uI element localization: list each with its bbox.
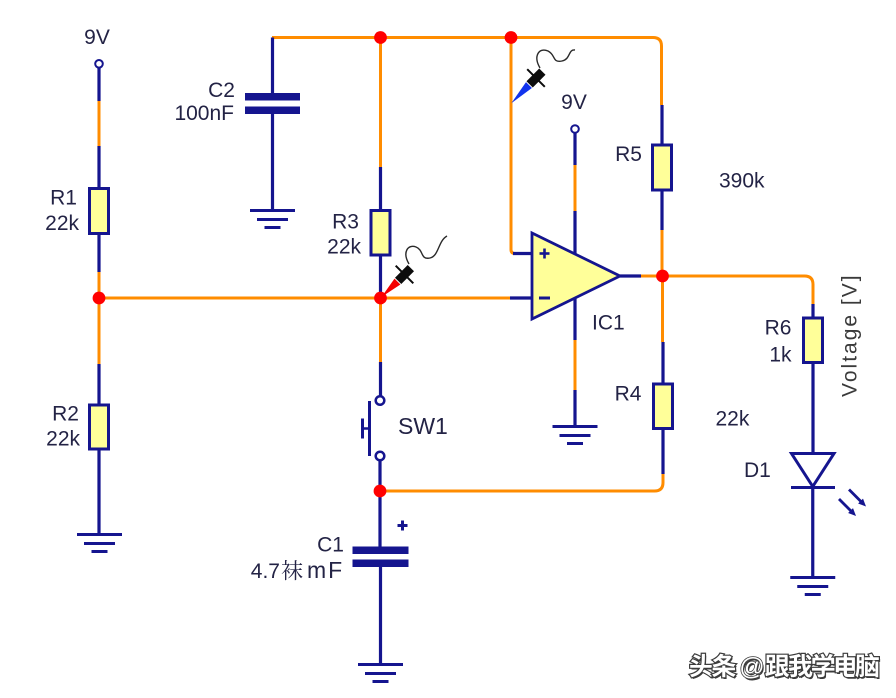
wire lead C2 bottom to ground <box>271 114 274 211</box>
resistor R1 body <box>90 189 109 234</box>
wire lead SW1 bottom to node <box>378 461 381 488</box>
wire lead R4 bottom <box>661 429 664 475</box>
svg-text:390k: 390k <box>719 170 765 193</box>
op-amp plus input symbol <box>540 249 550 259</box>
svg-text:@: @ <box>739 653 764 681</box>
svg-text:C2: C2 <box>208 79 235 102</box>
wire lead R1 bottom <box>97 233 100 272</box>
op-amp minus input symbol <box>539 297 550 300</box>
wire lead R3 top <box>379 167 382 211</box>
svg-text:R4: R4 <box>615 383 642 406</box>
svg-text:9V: 9V <box>84 26 110 49</box>
resistor R4 body <box>654 384 673 429</box>
svg-text:4.7: 4.7 <box>251 560 280 583</box>
wire output bus to R6 <box>640 276 813 304</box>
resistor R3 body <box>371 211 390 256</box>
wire lead R5 bottom <box>660 190 663 230</box>
capacitor C1 plates <box>353 547 409 555</box>
watermark toutiao <box>690 653 880 683</box>
capacitor C2 plates <box>245 93 300 101</box>
terminal circle 9V op-amp <box>571 125 579 133</box>
node junction dot bottom node <box>374 485 387 498</box>
wire output node to R4 <box>661 276 664 342</box>
svg-text:R3: R3 <box>332 211 359 234</box>
wire lead R6 top <box>811 304 814 318</box>
capacitor C1 plus polarity mark <box>398 521 408 531</box>
svg-text:R5: R5 <box>615 143 642 166</box>
svg-text:22k: 22k <box>45 212 79 235</box>
wire lead R2 to ground <box>97 449 100 535</box>
wire R5 bottom to output node <box>661 230 664 276</box>
svg-text:1k: 1k <box>769 344 792 367</box>
wire left node vertical <box>98 272 101 364</box>
wire mid horizontal bus <box>99 297 510 300</box>
resistor R2 body <box>90 405 109 449</box>
svg-text:mF: mF <box>307 557 344 583</box>
node junction dot output node <box>656 270 669 283</box>
LED D1 cathode bar <box>791 486 835 489</box>
node junction dot top node A <box>374 31 387 44</box>
wire lead D1 to ground <box>811 488 814 578</box>
svg-text:22k: 22k <box>46 428 80 451</box>
ground (op-amp) <box>553 427 598 444</box>
ground (D1) <box>790 578 835 595</box>
wire lead to R1 <box>97 146 100 189</box>
wire lead R6 to D1 <box>811 363 814 454</box>
wire lead op-amp minus stub <box>510 296 532 299</box>
wire to op-amp plus input <box>511 38 515 254</box>
wire left 9V lead segment <box>98 101 101 146</box>
op-amp IC1 triangle <box>532 233 620 319</box>
wire lead R5 top <box>660 105 663 145</box>
svg-text:R1: R1 <box>50 187 77 210</box>
wire lead to R2 <box>97 364 100 405</box>
terminal circle 9V left <box>95 60 103 68</box>
resistor R6 body <box>804 318 823 363</box>
svg-text:C1: C1 <box>317 534 344 557</box>
node junction dot top node B <box>505 31 518 44</box>
wire lead R4 top <box>661 342 664 384</box>
wire op-amp ground segment <box>574 340 577 390</box>
svg-text:D1: D1 <box>744 459 771 482</box>
LED D1 triangle <box>792 454 835 487</box>
wire lead C2 top <box>271 38 274 94</box>
svg-text:R6: R6 <box>765 317 792 340</box>
svg-text:R2: R2 <box>52 403 79 426</box>
wire lead 9V to R1 upper <box>97 68 100 102</box>
LED D1 emission arrows <box>839 490 866 517</box>
ground (C1) <box>358 665 403 682</box>
svg-text:SW1: SW1 <box>398 413 448 439</box>
wire R3 node to SW1 <box>379 298 382 362</box>
svg-text:Voltage [V]: Voltage [V] <box>839 273 862 397</box>
wire lead C1 bottom to ground <box>379 567 382 665</box>
wire lead op-amp plus stub <box>513 252 532 255</box>
svg-text:100nF: 100nF <box>174 102 234 125</box>
ground (R2) <box>77 535 122 552</box>
svg-text:22k: 22k <box>327 236 361 259</box>
wire lead op-amp to ground <box>573 390 576 427</box>
wire op-amp 9V supply segment <box>574 165 577 211</box>
svg-text:9V: 9V <box>561 91 587 114</box>
wire lead op-amp 9V upper <box>573 133 576 165</box>
wire bottom bus SW1 to R4 <box>380 474 663 491</box>
voltage probe (blue) at top node <box>511 82 532 103</box>
switch SW1 <box>363 396 385 460</box>
svg-text:IC1: IC1 <box>592 312 625 335</box>
voltage probe (red) at mid node <box>382 279 401 297</box>
svg-text:22k: 22k <box>716 408 750 431</box>
wire lead op-amp output stub <box>620 274 641 277</box>
wire R3 top vertical <box>379 38 382 168</box>
wire lead node to C1 <box>378 491 381 547</box>
wire lead R3 bottom <box>379 255 382 293</box>
node junction dot left node <box>93 292 106 305</box>
wire lead op-amp supply through body <box>573 211 576 340</box>
ground (C2) <box>250 211 295 228</box>
resistor R5 body <box>653 145 672 190</box>
wire lead SW1 top <box>379 362 382 397</box>
wire top supply bus <box>272 38 662 106</box>
node junction dot mid node <box>374 292 387 305</box>
